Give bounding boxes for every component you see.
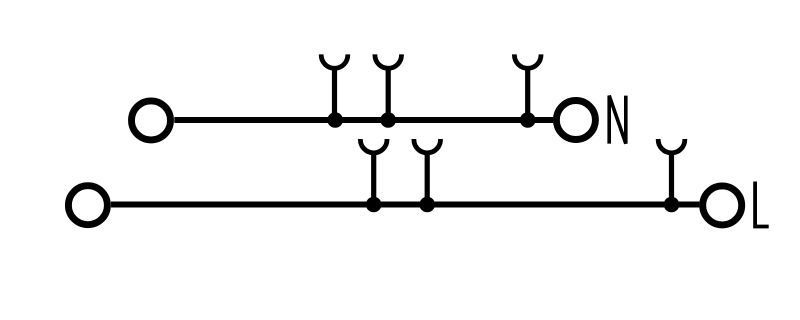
junction dot on L at P6 bbox=[664, 197, 680, 213]
junction dot on N at P2 bbox=[380, 112, 396, 128]
plug contact P4 stem bbox=[371, 151, 376, 205]
plug contact P6 stem bbox=[669, 151, 674, 205]
plug contact P5 cup bbox=[414, 139, 441, 153]
plug contact P1 stem bbox=[332, 66, 337, 120]
plug contact P2 cup bbox=[375, 54, 402, 68]
plug contact P4 cup bbox=[360, 139, 387, 153]
junction dot on N at P1 bbox=[327, 112, 343, 128]
wire N bus bbox=[174, 117, 553, 123]
node N left terminal circle bbox=[132, 101, 171, 140]
junction dot on L at P4 bbox=[366, 197, 382, 213]
node L right terminal circle bbox=[703, 186, 742, 225]
plug contact P5 stem bbox=[425, 151, 430, 205]
junction dot on N at P3 bbox=[520, 112, 536, 128]
plug contact P2 stem bbox=[386, 66, 391, 120]
plug contact P3 stem bbox=[525, 66, 530, 120]
label L bbox=[755, 182, 769, 227]
plug contact P3 cup bbox=[514, 54, 541, 68]
plug contact P1 cup bbox=[321, 54, 348, 68]
node L left terminal circle bbox=[68, 186, 107, 225]
label N bbox=[609, 96, 626, 144]
wire L bus bbox=[111, 202, 699, 208]
node N right terminal circle bbox=[556, 101, 595, 140]
junction dot on L at P5 bbox=[419, 197, 435, 213]
plug contact P6 cup bbox=[658, 139, 685, 153]
